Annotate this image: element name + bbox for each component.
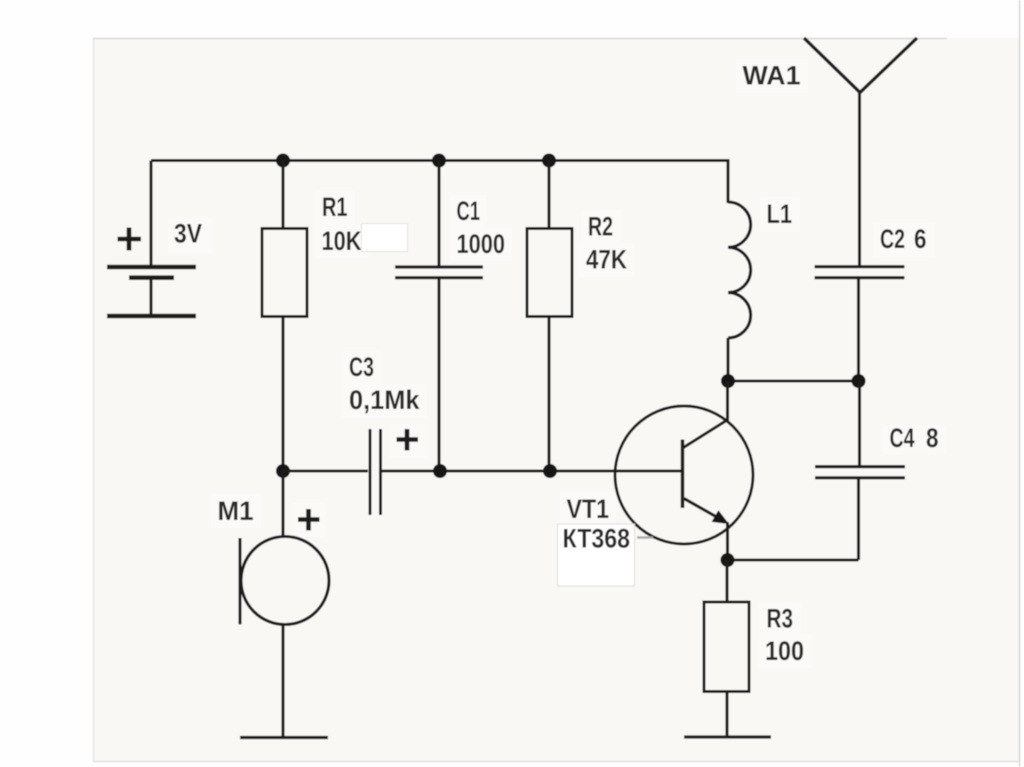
- wire top rail: [151, 159, 728, 162]
- node junction C2 C4: [852, 374, 866, 388]
- wire C1 bottom: [437, 278, 440, 471]
- capacitor C4: [815, 467, 905, 478]
- svg-text:R3: R3: [767, 604, 794, 634]
- wire R2 bottom: [547, 317, 550, 472]
- svg-text:C1: C1: [457, 196, 481, 226]
- svg-text:C3: C3: [349, 352, 374, 382]
- transistor VT1: [615, 406, 753, 544]
- battery plus sign: [118, 228, 142, 251]
- svg-text:КТ368: КТ368: [563, 524, 631, 554]
- wire R3 bottom: [725, 691, 728, 737]
- node junction top of R1: [276, 154, 290, 168]
- capacitor C1: [395, 267, 483, 278]
- svg-text:100: 100: [765, 636, 804, 666]
- svg-text:R1: R1: [322, 192, 348, 222]
- svg-text:3V: 3V: [174, 219, 202, 249]
- svg-text:47K: 47K: [586, 245, 627, 275]
- white patch under KT368: [558, 524, 635, 586]
- wire M1 top lead: [281, 471, 284, 537]
- svg-text:L1: L1: [767, 199, 793, 229]
- node junction M1 top: [276, 464, 290, 478]
- svg-text:WA1: WA1: [743, 61, 801, 91]
- wire R1 bottom: [281, 317, 284, 472]
- wire C1 to rail: [437, 161, 440, 268]
- wire mid right: [381, 469, 684, 472]
- wire C4 bottom: [857, 478, 860, 560]
- svg-text:M1: M1: [218, 496, 254, 526]
- svg-text:C4: C4: [890, 423, 915, 453]
- capacitor C3: [370, 429, 381, 515]
- svg-text:10K: 10K: [322, 226, 362, 256]
- ground under R3: [684, 735, 771, 738]
- resistor R1: [262, 229, 307, 317]
- node junction top of R2: [542, 154, 556, 168]
- resistor R2: [527, 229, 572, 317]
- node junction C1 bottom: [433, 464, 447, 478]
- node junction emitter: [721, 553, 735, 567]
- antenna WA1: [804, 38, 917, 266]
- wire R3 top: [725, 560, 728, 603]
- wire R1 to rail: [281, 161, 284, 231]
- wire collector: [726, 381, 729, 421]
- wire emitter to C4: [728, 558, 859, 561]
- capacitor C2: [815, 267, 905, 278]
- wire C2 bottom: [857, 278, 860, 381]
- inductor L1: [728, 159, 751, 381]
- node junction top of C1: [432, 154, 446, 168]
- M1 plus sign: [298, 509, 320, 531]
- svg-text:C2: C2: [880, 224, 905, 254]
- wire R2 to rail: [547, 161, 550, 231]
- svg-text:VT1: VT1: [567, 494, 610, 524]
- resistor R3: [704, 602, 749, 692]
- svg-text:R2: R2: [588, 212, 613, 242]
- battery G1 3V: [107, 161, 196, 317]
- grey dash right of KT368: [637, 536, 653, 538]
- svg-text:8: 8: [926, 423, 939, 453]
- ground under M1: [240, 736, 328, 739]
- wire C4 top: [858, 381, 861, 467]
- C3 plus sign: [397, 429, 419, 451]
- wire emitter vertical: [726, 522, 729, 560]
- wire M1 bottom lead: [281, 624, 284, 738]
- svg-text:1000: 1000: [457, 229, 506, 259]
- microphone M1: [240, 537, 329, 625]
- wire mid left: [283, 469, 368, 472]
- svg-text:0,1Mk: 0,1Mk: [349, 385, 420, 415]
- node junction L1 bottom: [721, 374, 735, 388]
- white patch right of 10K: [362, 224, 408, 252]
- node junction R2 bottom: [543, 464, 557, 478]
- svg-text:6: 6: [914, 224, 927, 254]
- wire L1 to C2 node: [728, 379, 859, 382]
